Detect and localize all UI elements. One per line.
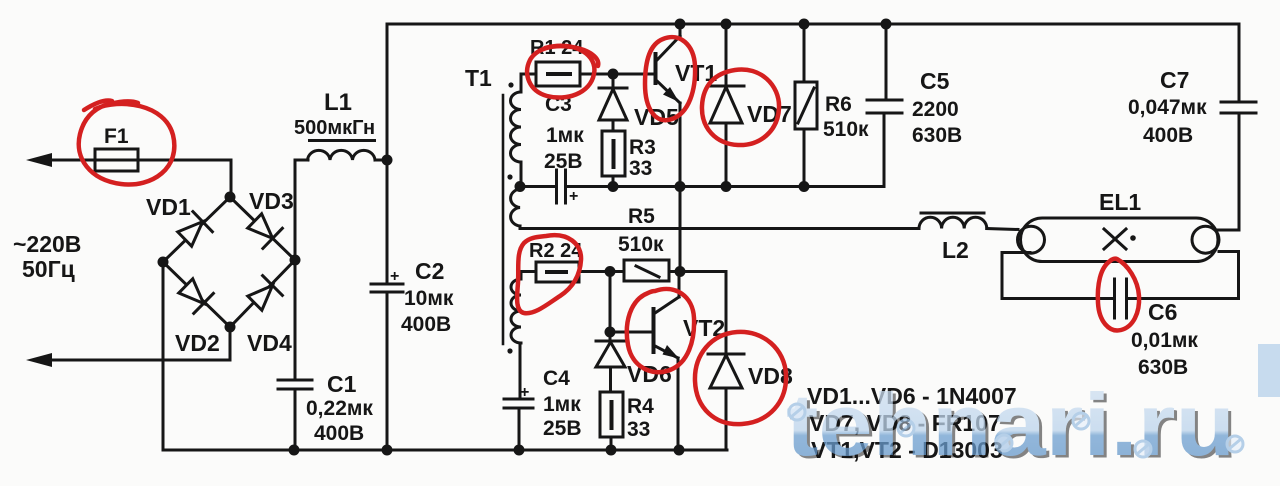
wire: bridge edge VD2 [163, 262, 230, 327]
svg-text:1мк: 1мк [543, 393, 581, 416]
node: R1 / VD5 / VT1 base [608, 69, 619, 80]
red circle R2 [517, 235, 581, 313]
node: VD6 / VT2 base junction [605, 327, 616, 338]
wire: base line VT2 [610, 331, 653, 334]
red circle R1 [527, 46, 598, 98]
svg-text:630В: 630В [912, 124, 962, 147]
diode VD6 [609, 332, 612, 341]
node: VT1 emitter junction [675, 181, 686, 192]
node: bridge top [225, 192, 236, 203]
diode VD1 [175, 212, 212, 250]
resistor R5 [624, 260, 669, 281]
svg-text:10мк: 10мк [404, 287, 454, 310]
svg-text:400В: 400В [401, 313, 451, 336]
svg-text:L1: L1 [324, 89, 352, 116]
svg-text:VD3: VD3 [249, 188, 294, 214]
wire: bridge right node down to C1 [294, 260, 297, 380]
transistor VT2 [652, 309, 656, 352]
svg-text:400В: 400В [1143, 124, 1193, 147]
node: bridge left [158, 257, 169, 268]
resistor R4 [600, 392, 623, 437]
svg-text:~220В: ~220В [13, 231, 81, 257]
svg-text:R6: R6 [825, 93, 852, 116]
wire: R5 left down to VD6 junction [609, 272, 612, 333]
svg-text:0,01мк: 0,01мк [1131, 329, 1198, 352]
lamp EL1 X mark [1104, 229, 1126, 249]
svg-text:25В: 25В [544, 150, 583, 173]
diode VD3 [245, 211, 282, 249]
svg-text:510к: 510к [823, 118, 869, 141]
watermark slash circles [789, 404, 1243, 457]
node: R4 bottom on rail [606, 445, 617, 456]
svg-text:0,22мк: 0,22мк [306, 397, 373, 420]
node: R5 right [675, 266, 686, 277]
T1 phase dot winding 3 [507, 348, 512, 353]
wire: emitter line [613, 185, 884, 188]
svg-text:T1: T1 [465, 65, 492, 91]
svg-text:tehnari.ru: tehnari.ru [786, 375, 1235, 474]
svg-text:VD6: VD6 [627, 361, 672, 387]
red circle F1 [79, 101, 175, 184]
L2 core bar [921, 212, 984, 215]
node: T1 junction [515, 181, 526, 192]
wire: bridge right node up to L1 [294, 160, 297, 260]
underline 500мкГн [308, 139, 376, 142]
watermark fragment right edge [1258, 344, 1280, 397]
fuse F1 [95, 149, 138, 171]
svg-text:33: 33 [627, 418, 650, 441]
resistor R3 [602, 131, 625, 176]
svg-text:510к: 510к [618, 233, 664, 256]
capacitor C5 [885, 24, 888, 100]
capacitor C4 [504, 398, 533, 401]
transformer T1 core [502, 95, 505, 344]
wire: midpoint vertical VT1-VT2 [679, 187, 682, 273]
watermark tehnari.ru [786, 344, 1280, 477]
lamp EL1 tube [1021, 218, 1219, 262]
wire: junction up to top rail [386, 24, 389, 160]
node: C4 bottom on rail [514, 445, 525, 456]
node: R3 bottom [608, 181, 619, 192]
wire: emitter line up to C5 [883, 113, 886, 187]
red circle VD8 [695, 332, 786, 424]
wire: bridge edge VD3 [230, 197, 295, 260]
svg-text:C2: C2 [415, 258, 444, 284]
svg-text:2200: 2200 [912, 98, 959, 121]
wire: AC input arrow 1 [26, 153, 52, 167]
wire: R5 right to VD8 [680, 272, 726, 355]
red circle VD7 [702, 69, 779, 145]
svg-text:R3: R3 [629, 136, 656, 159]
svg-text:VD4: VD4 [247, 330, 292, 356]
diode VD2 [176, 276, 213, 313]
wire: AC input line 1 [34, 159, 231, 162]
svg-text:400В: 400В [314, 422, 364, 445]
wire: AC input line 2 [34, 359, 230, 362]
svg-text:50Гц: 50Гц [22, 256, 75, 282]
transistor VT1 [654, 54, 658, 83]
node: VD7 top on top rail [721, 19, 732, 30]
node: VD7 bottom junction [721, 181, 732, 192]
capacitor C7 branch [1238, 24, 1241, 102]
diode VD5 [612, 74, 615, 88]
T1 phase dot winding 2 [507, 174, 512, 179]
svg-text:25В: 25В [543, 417, 582, 440]
wire: bridge bottom to input 2 [229, 327, 232, 360]
svg-text:F1: F1 [104, 125, 129, 148]
capacitor C1 [278, 379, 312, 382]
red annotation circles [79, 37, 1139, 424]
capacitor C2 [386, 160, 389, 284]
node: L1 / C2 junction [382, 155, 393, 166]
svg-text:0,047мк: 0,047мк [1128, 96, 1207, 119]
red circle VT2 [627, 289, 694, 372]
resistor R1 [536, 62, 580, 86]
svg-text:C5: C5 [920, 68, 950, 94]
diode VD8 [708, 353, 744, 356]
svg-text:C1: C1 [327, 371, 357, 397]
T1 winding 1 (upper) [521, 74, 536, 92]
node: VT1 collector on top rail [675, 19, 686, 30]
parts list text [807, 383, 1017, 463]
svg-text:R5: R5 [628, 205, 655, 228]
svg-text:R4: R4 [627, 395, 654, 418]
T1 winding 2 (middle) [511, 189, 520, 226]
svg-text:VD7: VD7 [747, 101, 792, 127]
svg-text:L2: L2 [942, 237, 969, 263]
wire: bridge edge VD1 [163, 197, 230, 262]
svg-text:+: + [390, 268, 399, 285]
T1 winding 3 (lower) [521, 272, 536, 280]
inductor L1 [295, 159, 308, 162]
wire: bridge left node down to ground rail [163, 262, 727, 450]
inductor L2 [919, 217, 987, 228]
resistor R2 [536, 262, 579, 282]
diode VD4 [245, 276, 282, 313]
red circle VT1 [645, 37, 695, 120]
svg-text:C4: C4 [543, 367, 570, 390]
node: R6 bottom junction [799, 181, 810, 192]
svg-text:33: 33 [629, 157, 652, 180]
lamp EL1 right electrode [1192, 226, 1219, 253]
T1 phase dot winding 1 [508, 82, 513, 87]
wire: top rail [387, 23, 1239, 26]
capacitor C3 [520, 185, 557, 188]
svg-text:+: + [520, 384, 529, 401]
node: C5 top on top rail [881, 19, 892, 30]
svg-text:C7: C7 [1160, 67, 1189, 93]
svg-text:500мкГн: 500мкГн [294, 117, 375, 139]
svg-text:EL1: EL1 [1099, 189, 1141, 215]
wire: AC input arrow 2 [26, 353, 52, 367]
svg-text:VD2: VD2 [175, 330, 220, 356]
svg-text:+: + [569, 188, 578, 205]
capacitor C6 loop [1002, 253, 1115, 299]
node: R5 left [605, 266, 616, 277]
wire: fuse to bridge top [230, 160, 233, 197]
node: bridge right [290, 255, 301, 266]
node: R6 top on top rail [799, 19, 810, 30]
wire: bridge edge VD4 [230, 260, 295, 327]
node: C2 bottom on rail [382, 445, 393, 456]
svg-text:1мк: 1мк [546, 124, 584, 147]
red circle C6 [1098, 259, 1139, 331]
node: VT2 emitter on rail [674, 445, 685, 456]
diode VD7 [725, 24, 728, 86]
node: C1 bottom on rail [289, 445, 300, 456]
node: bridge bottom [225, 322, 236, 333]
svg-text:C6: C6 [1148, 299, 1177, 325]
resistor R6 [803, 24, 806, 82]
lamp EL1 left electrode [1018, 226, 1045, 253]
svg-text:VD1: VD1 [146, 194, 191, 220]
